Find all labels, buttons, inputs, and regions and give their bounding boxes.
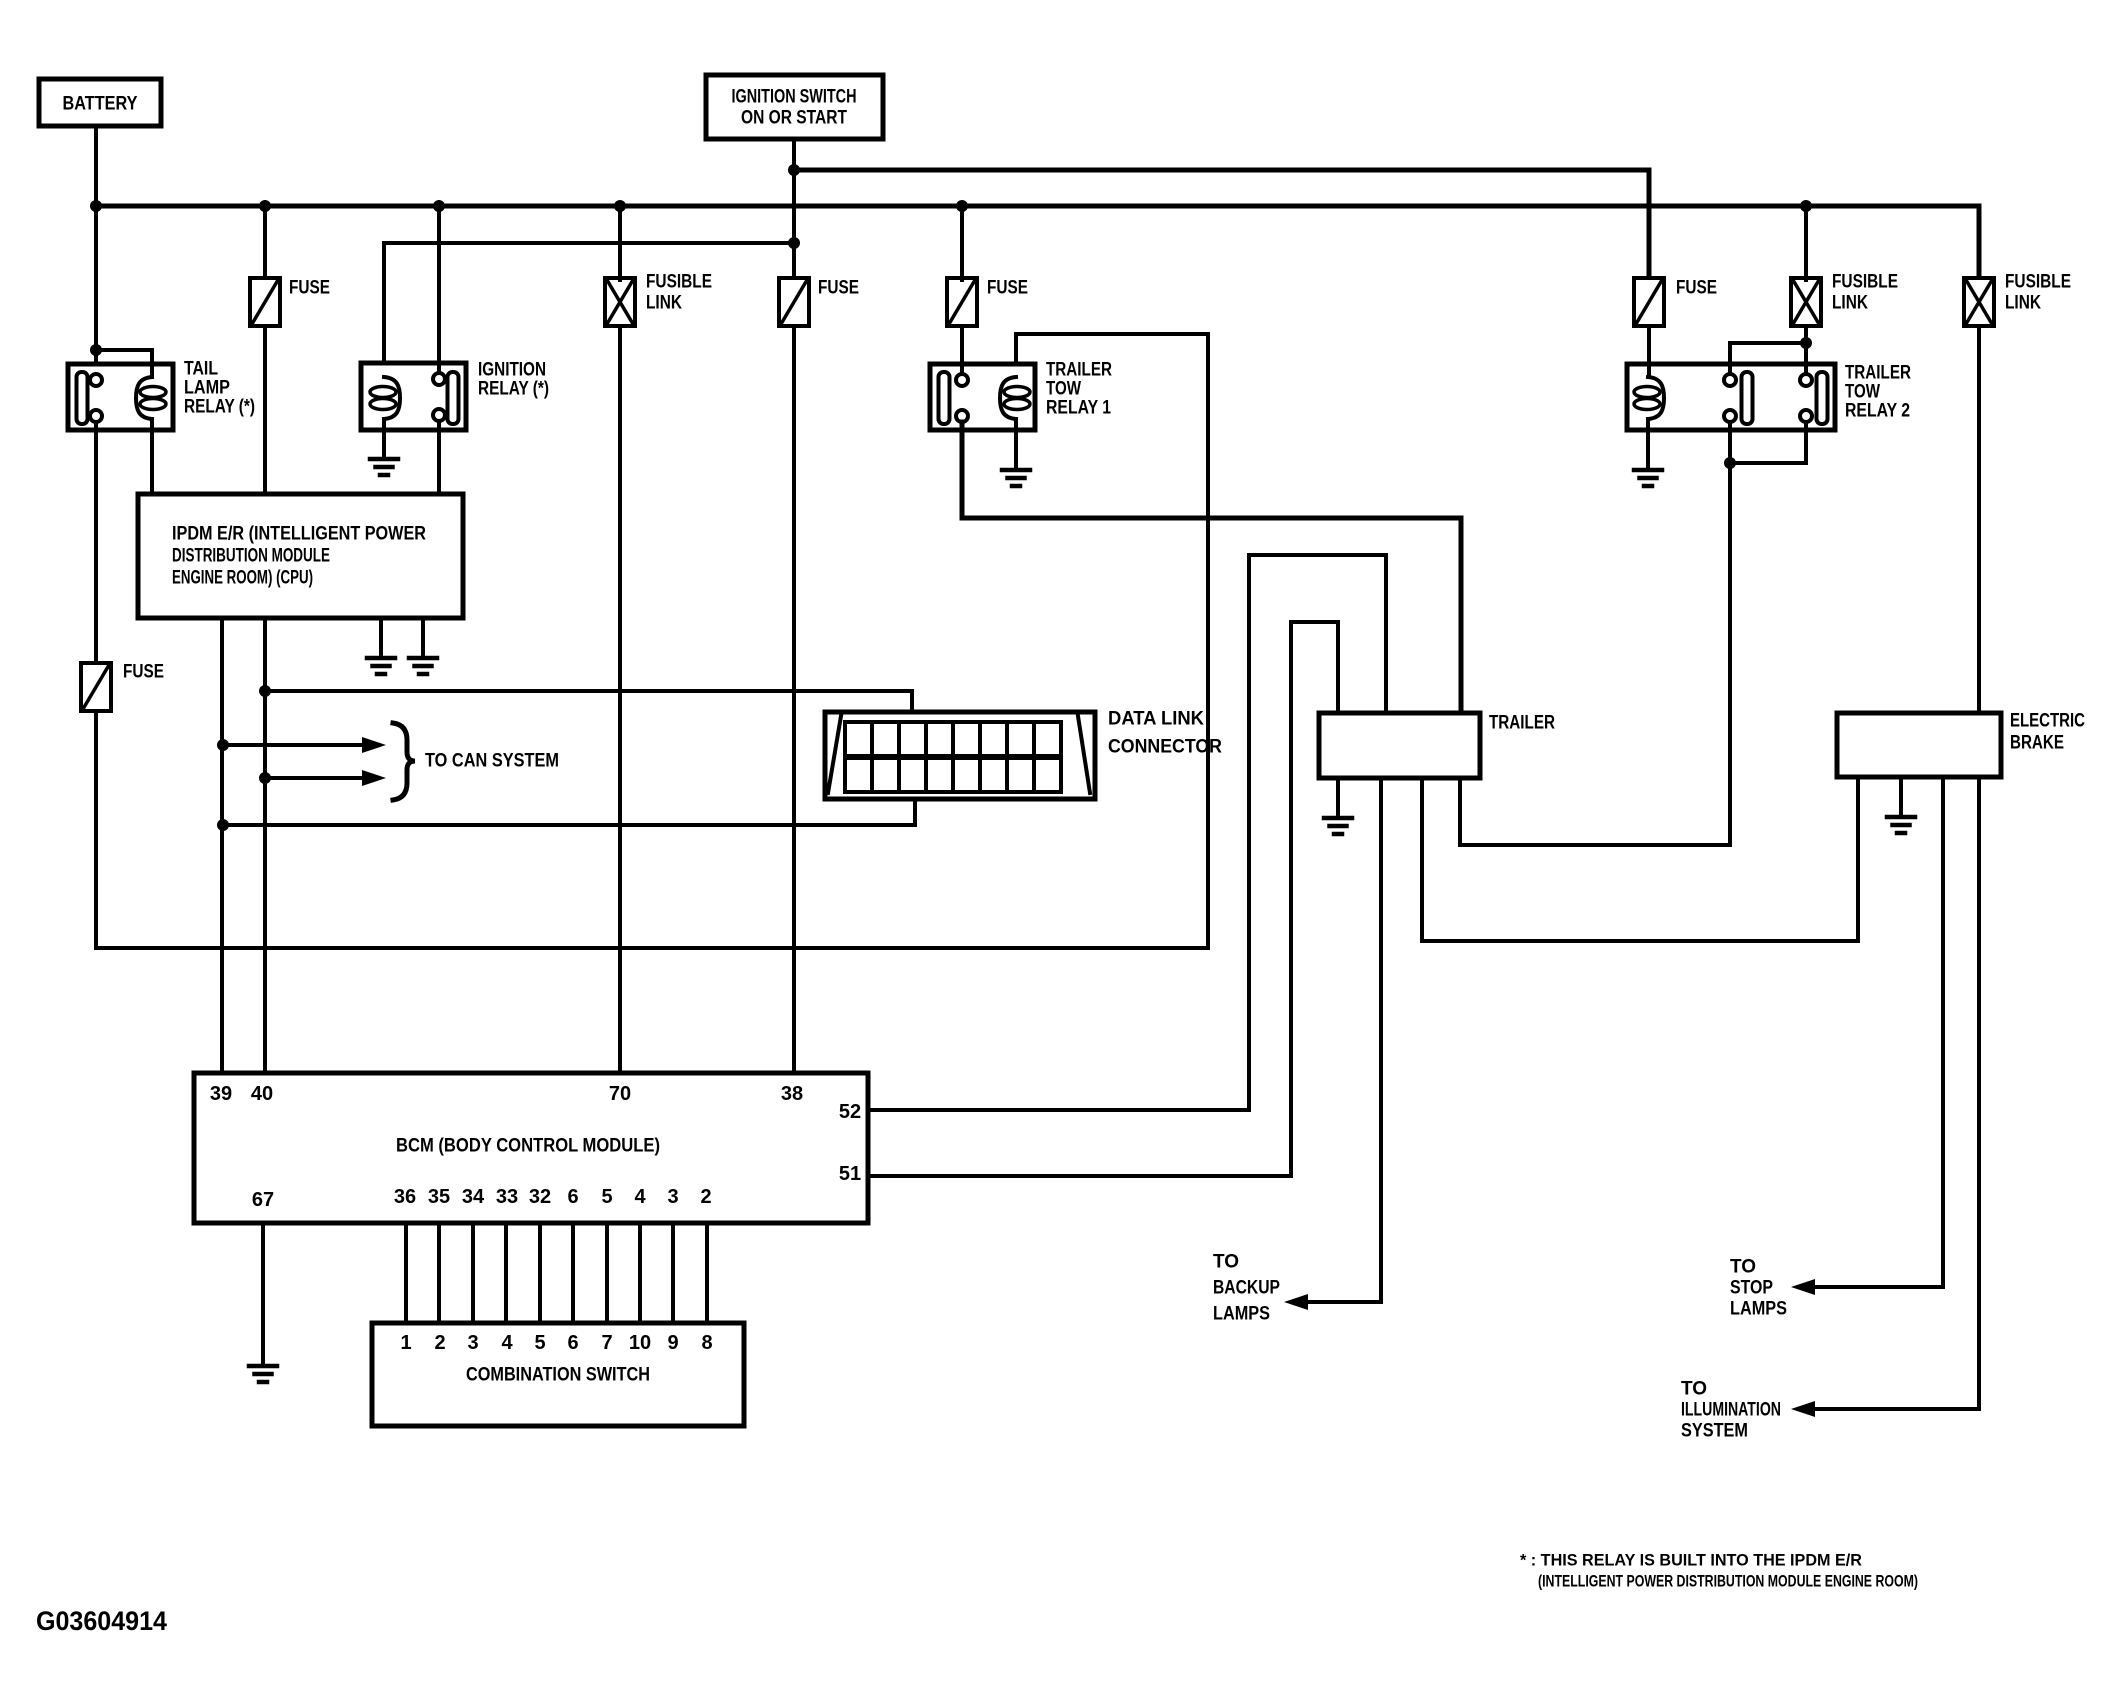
svg-text:ON OR START: ON OR START — [741, 108, 847, 129]
svg-text:6: 6 — [567, 1186, 578, 1208]
ignition switch — [706, 75, 883, 139]
wire fuse3 to relay1 contact — [960, 326, 964, 374]
wire BCM52 riser — [869, 555, 1386, 1110]
wire fuse1 drop to IPDM — [263, 206, 267, 280]
svg-text:LINK: LINK — [2005, 293, 2041, 314]
svg-text:TAIL: TAIL — [184, 359, 218, 380]
svg-text:TRAILER: TRAILER — [1489, 713, 1555, 734]
fuse F4 (right) — [1634, 278, 1664, 326]
wire fuse4 to relay2 coil — [1647, 326, 1651, 377]
svg-text:LAMPS: LAMPS — [1730, 1299, 1787, 1320]
svg-text:SYSTEM: SYSTEM — [1681, 1421, 1748, 1442]
svg-text:TO: TO — [1213, 1252, 1239, 1273]
wire fuse5 long run to relay1 coil riser — [96, 334, 1208, 948]
data link connector — [825, 709, 1222, 800]
fuse F1 — [250, 278, 280, 326]
wire IPDM to BCM pin 40 — [263, 618, 267, 1073]
wire ignition relay coil to ground — [382, 419, 386, 459]
svg-text:IPDM E/R (INTELLIGENT POWER: IPDM E/R (INTELLIGENT POWER — [172, 524, 426, 545]
combination switch — [372, 1323, 744, 1426]
ground trailer tow relay 1 — [1002, 470, 1030, 486]
wire relay1 output to trailer — [962, 422, 1461, 713]
wire ignition switch drop — [792, 139, 796, 278]
ground trailer — [1324, 818, 1352, 834]
svg-text:DISTRIBUTION MODULE: DISTRIBUTION MODULE — [172, 546, 330, 567]
svg-text:67: 67 — [252, 1189, 274, 1211]
ground IPDM 2 — [409, 658, 437, 674]
node can-l tap — [217, 819, 229, 831]
svg-text:32: 32 — [529, 1186, 551, 1208]
wire relay2 output to trailer — [1460, 463, 1730, 845]
svg-text:RELAY (*): RELAY (*) — [184, 397, 255, 418]
wire fusible link1 to BCM pin 70 — [618, 206, 622, 280]
wire IPDM to BCM pin 39 — [220, 618, 224, 1073]
svg-text:FUSIBLE: FUSIBLE — [1832, 272, 1898, 293]
wire IPDM ground 2 — [421, 618, 425, 658]
wire trailer to backup lamps — [1306, 778, 1381, 1302]
svg-text:TO CAN SYSTEM: TO CAN SYSTEM — [425, 751, 559, 772]
svg-text:34: 34 — [462, 1186, 485, 1208]
svg-text:(INTELLIGENT POWER DISTRIBUTIO: (INTELLIGENT POWER DISTRIBUTION MODULE E… — [1538, 1572, 1918, 1591]
ground trailer tow relay 2 — [1634, 470, 1662, 486]
ignition relay — [361, 360, 549, 431]
node bus-fusible-link1 — [614, 200, 626, 212]
node bus-fuse3 — [956, 200, 968, 212]
svg-text:BACKUP: BACKUP — [1213, 1278, 1280, 1299]
electric brake box — [1837, 711, 2085, 778]
tail lamp relay — [68, 350, 255, 430]
node relay2 top junction — [1800, 337, 1812, 349]
fuse F5 (tail lamp output) — [81, 663, 111, 711]
svg-text:1: 1 — [400, 1332, 411, 1354]
node bus-fuse1 — [259, 200, 271, 212]
svg-text:RELAY (*): RELAY (*) — [478, 379, 549, 400]
svg-text:ENGINE ROOM) (CPU): ENGINE ROOM) (CPU) — [172, 568, 313, 589]
svg-text:RELAY 2: RELAY 2 — [1845, 401, 1910, 422]
svg-text:10: 10 — [629, 1332, 651, 1354]
svg-text:TOW: TOW — [1845, 382, 1880, 403]
svg-text:DATA LINK: DATA LINK — [1108, 709, 1204, 730]
svg-text:2: 2 — [434, 1332, 445, 1354]
wire trailer brake to electric brake — [1422, 777, 1858, 941]
wire ignition relay contact to IPDM — [437, 421, 441, 496]
svg-text:5: 5 — [601, 1186, 612, 1208]
trailer box — [1319, 713, 1555, 779]
trailer tow relay 2 — [1627, 363, 1911, 431]
wire relay1 coil to ground — [1014, 419, 1018, 470]
svg-text:ELECTRIC: ELECTRIC — [2010, 711, 2085, 732]
svg-text:36: 36 — [394, 1186, 416, 1208]
wire CAN-H to data link connector — [265, 691, 912, 722]
svg-text:LAMP: LAMP — [184, 378, 230, 399]
svg-text:52: 52 — [839, 1101, 861, 1123]
svg-text:BRAKE: BRAKE — [2010, 733, 2064, 754]
svg-text:LINK: LINK — [646, 293, 682, 314]
svg-text:CONNECTOR: CONNECTOR — [1108, 737, 1222, 758]
svg-text:35: 35 — [428, 1186, 450, 1208]
svg-text:BCM (BODY CONTROL MODULE): BCM (BODY CONTROL MODULE) — [396, 1136, 660, 1157]
wire fusible link3 to electric brake — [1977, 326, 1981, 713]
node bus-fusible-link2 — [1800, 200, 1812, 212]
svg-text:LAMPS: LAMPS — [1213, 1304, 1270, 1325]
svg-text:40: 40 — [251, 1083, 273, 1105]
svg-text:TOW: TOW — [1046, 379, 1081, 400]
svg-text:TO: TO — [1681, 1379, 1707, 1400]
svg-text:COMBINATION SWITCH: COMBINATION SWITCH — [466, 1365, 650, 1386]
svg-text:8: 8 — [701, 1332, 712, 1354]
node can-h tap — [259, 685, 271, 697]
node relay2 bottom junction — [1724, 457, 1736, 469]
node bus-battery — [90, 200, 102, 212]
wire trailer ground — [1336, 778, 1340, 818]
svg-text:BATTERY: BATTERY — [63, 94, 138, 115]
battery — [39, 79, 161, 126]
svg-text:FUSE: FUSE — [123, 662, 164, 683]
IPDM E/R box — [138, 494, 463, 618]
fusible link FL2 — [1791, 278, 1821, 326]
svg-text:IGNITION: IGNITION — [478, 360, 546, 381]
svg-text:4: 4 — [634, 1186, 646, 1208]
wire CAN arrow 2 — [265, 776, 366, 780]
wire to illumination system — [1813, 777, 1979, 1409]
wire ignition feed to fuse4 — [794, 170, 1649, 278]
svg-text:FUSE: FUSE — [987, 278, 1028, 299]
svg-text:5: 5 — [534, 1332, 545, 1354]
svg-text:LINK: LINK — [1832, 293, 1868, 314]
trailer tow relay 1 — [930, 360, 1112, 431]
wire IPDM ground 1 — [379, 618, 383, 658]
svg-text:FUSE: FUSE — [1676, 278, 1717, 299]
fuse F2 (ignition to BCM 38) — [779, 278, 809, 326]
wire relay2 coil ground — [1646, 419, 1650, 470]
node ignition-coil-tap — [788, 237, 800, 249]
wire CAN arrow 1 — [223, 743, 366, 747]
svg-text:TRAILER: TRAILER — [1845, 363, 1911, 384]
svg-text:FUSIBLE: FUSIBLE — [2005, 272, 2071, 293]
svg-text:ILLUMINATION: ILLUMINATION — [1681, 1400, 1781, 1421]
svg-text:TRAILER: TRAILER — [1046, 360, 1112, 381]
wire fusible link2 to relay2 contacts — [1804, 326, 1808, 374]
svg-text:3: 3 — [467, 1332, 478, 1354]
svg-text:70: 70 — [609, 1083, 631, 1105]
svg-text:IGNITION SWITCH: IGNITION SWITCH — [732, 87, 857, 108]
wire BCM to combination switch pins — [406, 1223, 707, 1323]
svg-text:FUSIBLE: FUSIBLE — [646, 272, 712, 293]
wire bus to ignition relay contact — [437, 206, 441, 373]
wire relay2 contact outputs join — [1804, 422, 1808, 463]
wire tail relay coil to IPDM — [150, 419, 154, 496]
BCM (body control module) — [194, 1073, 868, 1223]
wire fuse2 to BCM pin 38 — [792, 326, 796, 1073]
svg-text:7: 7 — [601, 1332, 612, 1354]
brace to CAN system — [393, 723, 415, 800]
wire tail relay output to fuse — [94, 422, 98, 665]
wire ignition relay coil feed — [384, 241, 794, 245]
svg-text:6: 6 — [567, 1332, 578, 1354]
svg-text:3: 3 — [667, 1186, 678, 1208]
fusible link FL1 — [605, 278, 635, 326]
node ignition-switch-tap — [788, 164, 800, 176]
svg-text:38: 38 — [781, 1083, 803, 1105]
svg-text:G03604914: G03604914 — [36, 1606, 167, 1636]
svg-text:* : THIS RELAY IS BUILT INTO T: * : THIS RELAY IS BUILT INTO THE IPDM E/… — [1520, 1551, 1862, 1570]
svg-text:RELAY 1: RELAY 1 — [1046, 398, 1111, 419]
wire main battery bus — [96, 206, 1979, 278]
node tail-relay-coil-tap — [90, 344, 102, 356]
fuse F3 (to trailer tow relay 1) — [947, 278, 977, 326]
svg-text:2: 2 — [700, 1186, 711, 1208]
wire to stop lamps — [1813, 777, 1943, 1287]
wire electric brake ground — [1899, 777, 1903, 817]
svg-text:39: 39 — [210, 1083, 232, 1105]
fusible link FL3 — [1964, 278, 1994, 326]
node bus-ignition-relay — [433, 200, 445, 212]
ground electric brake — [1887, 817, 1915, 833]
svg-text:33: 33 — [496, 1186, 518, 1208]
ground BCM — [249, 1366, 277, 1382]
svg-text:FUSE: FUSE — [289, 278, 330, 299]
svg-text:FUSE: FUSE — [818, 278, 859, 299]
wire CAN-L to data link connector — [223, 792, 915, 825]
wire BCM51 riser — [869, 622, 1338, 1176]
svg-text:TO: TO — [1730, 1257, 1756, 1278]
svg-text:STOP: STOP — [1730, 1278, 1773, 1299]
ground ignition relay — [370, 459, 398, 475]
wire BCM pin 67 ground — [261, 1223, 265, 1366]
ground IPDM 1 — [367, 658, 395, 674]
svg-text:51: 51 — [839, 1163, 861, 1185]
wire battery drop — [94, 126, 98, 374]
svg-text:9: 9 — [667, 1332, 678, 1354]
svg-text:4: 4 — [501, 1332, 513, 1354]
